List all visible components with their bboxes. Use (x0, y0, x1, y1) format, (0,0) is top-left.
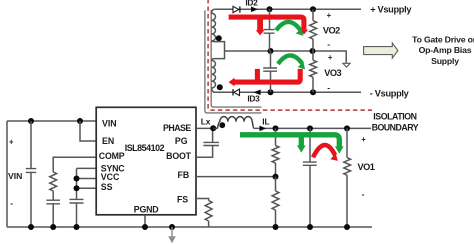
node: comp ground (50, 224, 56, 230)
svg-text:To Gate Drive on: To Gate Drive on (412, 35, 474, 45)
wire top rail to +Vsupply (214, 8, 361, 10)
wire COMP network (53, 157, 96, 172)
node: top rail / C2 junction (267, 6, 273, 12)
svg-text:VIN: VIN (102, 118, 117, 128)
svg-text:Supply: Supply (431, 56, 459, 66)
IC U1 ISL854102 (96, 107, 196, 215)
svg-text:PHASE: PHASE (163, 123, 191, 133)
node: Cin ground (28, 224, 34, 230)
svg-text:VO2: VO2 (323, 26, 340, 36)
svg-text:BOUNDARY: BOUNDARY (372, 122, 419, 132)
node: FB junction (273, 174, 279, 180)
svg-text:SS: SS (101, 182, 113, 192)
node: top rail / VO2 load junction (310, 6, 316, 12)
resistor VO3 load (312, 51, 314, 60)
svg-text:EN: EN (102, 136, 114, 146)
node: VCC cap ground (74, 224, 80, 230)
wire ground bottom rail (7, 226, 372, 228)
ground symbol (primary) (171, 227, 173, 236)
svg-text:PG: PG (175, 136, 188, 146)
node: middle rail / VO2 load (310, 48, 316, 54)
svg-text:-: - (327, 39, 330, 49)
isolation boundary red dashed line (208, 0, 372, 110)
FS set resistor (205, 201, 212, 222)
svg-text:IL: IL (262, 117, 269, 127)
node: phase node (210, 125, 216, 131)
node: PGND (142, 224, 148, 230)
feedback resistor R2 (272, 191, 279, 210)
feedback resistor R1 (275, 128, 277, 145)
svg-text:+: + (9, 138, 14, 147)
node: bottom rail / VO3 load (310, 89, 316, 95)
current arrow IL (260, 126, 267, 132)
block arrow: to gate drive (364, 43, 398, 58)
wire VCC bypass vertical (76, 168, 78, 199)
svg-text:COMP: COMP (99, 151, 125, 161)
node: output capacitor tap (307, 125, 313, 131)
wire VCC (77, 178, 97, 180)
capacitor C3 (270, 51, 272, 68)
svg-text:Lx: Lx (201, 116, 211, 126)
node: FB divider tap on output (273, 125, 279, 131)
resistor VO2 load (312, 9, 314, 20)
node: ground symbol tap (169, 224, 175, 230)
green current path arrow (VO3 discharge loop) (278, 55, 302, 63)
red current path arrow (output ripple loop) (313, 145, 335, 157)
svg-text:FB: FB (177, 170, 189, 180)
wire SS (77, 187, 97, 189)
center tap wire (214, 42, 225, 59)
bootstrap capacitor (212, 128, 214, 142)
svg-text:-: - (362, 189, 365, 199)
node: VCC tie (74, 176, 80, 182)
svg-text:VCC: VCC (101, 172, 120, 182)
svg-text:- Vsupply: - Vsupply (370, 88, 410, 98)
svg-text:VO3: VO3 (324, 68, 341, 78)
svg-text:BOOT: BOOT (166, 151, 191, 161)
green current path arrow (inductor current to output) (240, 135, 339, 147)
primary winding / inductor Lx (213, 117, 254, 129)
wire FS (196, 199, 209, 201)
node: VO1 ground (344, 224, 350, 230)
transformer secondary winding W3 (bottom) (212, 59, 216, 93)
compensation resistor (50, 172, 57, 191)
red current path arrow (VO2 charging loop) (229, 17, 304, 30)
polarity dot winding W3 (217, 84, 223, 90)
transformer secondary winding W2 (top) (212, 9, 216, 41)
output capacitor C1 (309, 128, 311, 161)
svg-text:VO1: VO1 (358, 162, 375, 172)
current arrow ID2 (251, 7, 258, 13)
red current path arrow (VO3 charging loop) (234, 69, 300, 82)
wire VIN to IC (7, 120, 96, 122)
node: SS tie (74, 185, 80, 191)
wire FB (196, 176, 276, 178)
node: EN tap on VIN (77, 118, 83, 124)
wire VIN left rail (6, 121, 8, 227)
VCC bypass capacitor (70, 199, 84, 203)
current arrow ID3 (254, 90, 261, 96)
polarity dot Lx (219, 122, 225, 128)
wire output node rail (254, 127, 371, 129)
svg-text:FS: FS (177, 194, 188, 204)
wire EN jog (80, 121, 96, 141)
node: middle rail / C2 (268, 48, 274, 54)
diode D3 (234, 89, 240, 95)
ground symbol (isolated common) (343, 63, 350, 67)
node: bottom rail / C3 (268, 89, 274, 95)
green current path arrow (VO2 discharge loop) (276, 22, 300, 30)
node: FB divider ground (273, 224, 279, 230)
wire PHASE (196, 127, 213, 129)
node: Cin junction on VIN (28, 118, 34, 124)
load resistor VO1 (346, 128, 348, 157)
wire middle rail (center tap to ground) (225, 51, 347, 63)
node: VO1 load tap (344, 125, 350, 131)
wire bottom rail to -Vsupply (215, 91, 361, 93)
input capacitor Cin (30, 121, 32, 168)
svg-text:+: + (328, 53, 333, 62)
svg-text:ID3: ID3 (247, 94, 260, 104)
node: C1 ground (307, 224, 313, 230)
wire PGND stub (144, 215, 146, 227)
wire SYNC (77, 167, 97, 169)
compensation capacitor (52, 191, 54, 200)
svg-text:-: - (10, 198, 13, 208)
diode D2 (233, 6, 239, 12)
svg-text:VIN: VIN (8, 171, 22, 181)
capacitor C2 (269, 9, 271, 29)
transformer T1 core lines (205, 10, 262, 113)
svg-text:-: - (327, 82, 330, 92)
svg-text:ISL854102: ISL854102 (125, 143, 165, 153)
svg-text:ID2: ID2 (245, 0, 258, 8)
svg-text:+: + (361, 135, 366, 144)
svg-text:Op-Amp Bias: Op-Amp Bias (419, 45, 472, 55)
svg-text:ISOLATION: ISOLATION (373, 112, 416, 122)
svg-text:+ Vsupply: + Vsupply (370, 4, 412, 14)
svg-text:PGND: PGND (134, 205, 159, 215)
polarity dot winding W2 (216, 35, 222, 41)
svg-text:+: + (327, 11, 332, 20)
